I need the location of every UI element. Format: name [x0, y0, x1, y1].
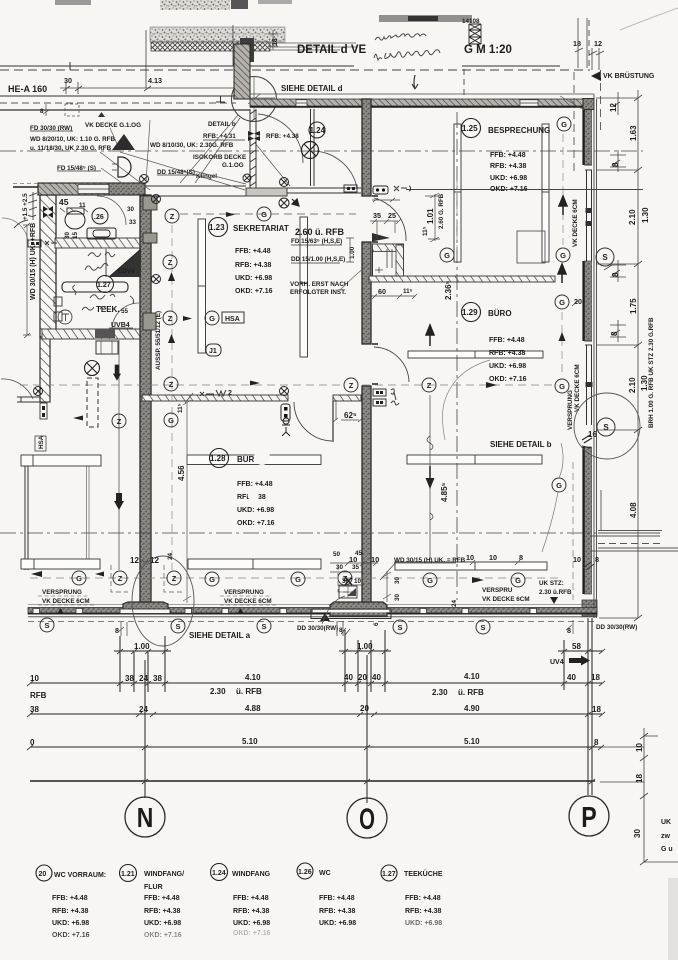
- circled T handwritten: [58, 310, 72, 324]
- circle Z bottom row3: [338, 571, 352, 585]
- svg-text:G: G: [209, 314, 215, 323]
- svg-text:RFB: +4.38: RFB: +4.38: [233, 908, 269, 915]
- beam row lower-left 1.28: [21, 559, 100, 569]
- svg-text:2.10: 2.10: [628, 209, 637, 225]
- balloon circle SIEHE DETAIL d: [232, 77, 277, 122]
- S circles right side: [596, 248, 615, 436]
- room 1.24 circle: [309, 122, 325, 138]
- svg-text:8: 8: [611, 162, 620, 167]
- parapet dashed verticals right: [573, 72, 575, 172]
- handwritten: lt. Stahlplan: [374, 50, 440, 60]
- wall: entrance stub above top wall: [234, 44, 250, 99]
- svg-text:30: 30: [394, 593, 401, 601]
- svg-text:zw: zw: [661, 833, 671, 840]
- svg-text:Z: Z: [427, 381, 432, 390]
- circle Z bottom row2: [167, 571, 181, 585]
- svg-text:1.26: 1.26: [298, 869, 312, 876]
- VK BRUESTUNG marker triangle: [591, 71, 601, 81]
- svg-text:SIEHE DETAIL d: SIEHE DETAIL d: [281, 84, 343, 93]
- bracket lines right of sekretariat: [517, 231, 545, 263]
- dim 18 12 top right: [573, 18, 604, 70]
- beam row 1.29 south room: [407, 455, 542, 464]
- svg-text:4.56: 4.56: [177, 465, 186, 481]
- svg-text:Z: Z: [118, 574, 123, 583]
- svg-text:Z: Z: [349, 381, 354, 390]
- circle G teekueche pass: [440, 248, 454, 262]
- svg-text:OKD: +7.16: OKD: +7.16: [52, 932, 90, 939]
- dim line with 30 and 4.13: [60, 82, 240, 94]
- grid verticals: [145, 618, 592, 803]
- svg-text:35: 35: [373, 211, 381, 220]
- black triangle symbol: [112, 134, 135, 150]
- footing of spine wall: [123, 602, 168, 611]
- svg-text:1.27: 1.27: [382, 871, 396, 878]
- svg-text:18: 18: [592, 705, 601, 714]
- svg-text:10: 10: [30, 674, 39, 683]
- svg-text:RFB: +4.38: RFB: +4.38: [490, 163, 526, 170]
- svg-text:10: 10: [489, 553, 497, 562]
- svg-text:4.90: 4.90: [464, 704, 480, 713]
- teek counter: [62, 282, 128, 292]
- leader to siehe detail b: [443, 360, 491, 440]
- circle G sekretariat hsa: [205, 311, 219, 325]
- wall: top exterior (north): [250, 99, 594, 107]
- svg-text:1.23: 1.23: [209, 223, 225, 232]
- section detail: thin slab lines to right: [270, 43, 356, 50]
- svg-text:S: S: [44, 621, 49, 630]
- notes above wc block: [30, 121, 299, 180]
- arrow left bottom2: [95, 572, 104, 577]
- wall: bottom exterior (south): [28, 608, 597, 615]
- svg-text:30: 30: [394, 576, 401, 584]
- neighbour structure lines SE: [590, 490, 678, 551]
- svg-text:OKD: +7.16: OKD: +7.16: [237, 520, 275, 527]
- svg-text:TEEK.: TEEK.: [96, 305, 120, 314]
- svg-text:SEKRETARIAT: SEKRETARIAT: [233, 224, 289, 233]
- wall: partition flur/1.28: [142, 395, 288, 401]
- wall: left exterior big hatched pier: [40, 195, 56, 337]
- svg-text:5.10: 5.10: [464, 737, 480, 746]
- svg-text:ISOKORB DECKE: ISOKORB DECKE: [193, 154, 246, 161]
- svg-text:10: 10: [466, 553, 474, 562]
- svg-text:4.08: 4.08: [629, 502, 638, 518]
- G circle on detail-b leader: [552, 478, 566, 492]
- S circles bottom: [40, 618, 490, 634]
- room 1.29 BUERO: [462, 303, 481, 322]
- svg-text:4.85⁵: 4.85⁵: [440, 482, 449, 502]
- svg-text:FFB: +4.48: FFB: +4.48: [237, 481, 273, 488]
- svg-text:u. 11/18/30, UK 2.30 G. RFB: u. 11/18/30, UK 2.30 G. RFB: [30, 145, 112, 152]
- arrow right buero mid: [486, 382, 497, 388]
- svg-text:+1.5 +2.5: +1.5 +2.5: [22, 193, 29, 220]
- leader lines: [100, 96, 584, 190]
- svg-text:1.24: 1.24: [212, 870, 226, 877]
- leader curve from inst note: [340, 262, 372, 290]
- door arc into 1.24 from east: [313, 151, 357, 188]
- svg-text:ü. RFB: ü. RFB: [236, 687, 262, 696]
- z-line row mid: [20, 384, 552, 386]
- extra marks at spine2 bottom cluster: [345, 577, 352, 585]
- left glass facade of 1.28: [25, 455, 28, 570]
- svg-text:1.25: 1.25: [462, 124, 478, 133]
- long line under header: [0, 65, 560, 67]
- svg-text:BRH 1.00 G. RFB UK STZ 2.30 G.: BRH 1.00 G. RFB UK STZ 2.30 G.RFB: [648, 317, 655, 428]
- svg-text:Z: Z: [170, 212, 175, 221]
- svg-text:UKD: +6.98: UKD: +6.98: [235, 275, 272, 282]
- svg-text:G: G: [261, 210, 267, 219]
- handdrawn arrow top: [412, 75, 418, 89]
- main chain line: [637, 90, 639, 618]
- svg-text:HSA: HSA: [225, 316, 240, 323]
- row B line: [30, 713, 602, 715]
- teekueche pass-through hatched box: [372, 233, 404, 276]
- dark corner triangle TEEK: [109, 249, 141, 277]
- svg-text:18: 18: [635, 774, 644, 783]
- beam row upper-left 1.28: [21, 455, 101, 466]
- HSA tag rotated left: [35, 436, 46, 451]
- circle G besprechung bottom: [556, 248, 570, 262]
- svg-text:OKD: +7.16: OKD: +7.16: [235, 288, 273, 295]
- svg-text:VERSPRU: VERSPRU: [482, 587, 513, 594]
- mullion squares on south wall: [33, 608, 537, 613]
- window gaps in north wall: [296, 100, 538, 106]
- svg-text:1.75: 1.75: [629, 298, 638, 314]
- wall: central spine (x140): [140, 195, 151, 607]
- arrow up east3: [559, 332, 566, 341]
- svg-text:UKD: +6.98: UKD: +6.98: [237, 507, 274, 514]
- svg-text:.26: .26: [94, 214, 104, 221]
- svg-text:WD 30/15 (H) UK. +RFB: WD 30/15 (H) UK. +RFB: [30, 223, 37, 300]
- section detail: dark angle bracket: [240, 38, 254, 62]
- footing of spine 2: [330, 602, 387, 616]
- grid bubble P: [569, 796, 609, 836]
- dims cluster at spine2 bottom: [333, 550, 379, 585]
- svg-text:16: 16: [588, 430, 597, 439]
- svg-text:BÜR: BÜR: [237, 455, 255, 464]
- handwritten 9R note: [391, 389, 399, 405]
- svg-text:WC: WC: [319, 870, 331, 877]
- svg-text:UKD: +6.98: UKD: +6.98: [144, 920, 181, 927]
- svg-text:G: G: [559, 298, 565, 307]
- svg-text:20: 20: [360, 704, 369, 713]
- svg-text:G M 1:20: G M 1:20: [464, 44, 512, 56]
- svg-text:VK DECKE 6CM: VK DECKE 6CM: [42, 598, 90, 605]
- svg-text:4.88: 4.88: [245, 704, 261, 713]
- svg-text:BÜRO: BÜRO: [488, 309, 512, 318]
- circle G bottom row: [72, 571, 86, 585]
- wc dims: [59, 197, 137, 239]
- row C texts: [30, 737, 599, 747]
- HSA tag box: [222, 312, 244, 323]
- svg-text:8: 8: [610, 331, 619, 336]
- svg-text:G: G: [295, 575, 301, 584]
- svg-text:FD 15/63⁵ (H,S,E): FD 15/63⁵ (H,S,E): [291, 238, 342, 245]
- svg-text:10: 10: [635, 743, 644, 752]
- door frame element under left wall: [40, 403, 47, 419]
- lattice tower symbol: [469, 24, 481, 44]
- door arc far left entry: [2, 218, 28, 243]
- svg-text:Z: Z: [117, 417, 122, 426]
- svg-text:RFB: RFB: [30, 691, 47, 700]
- svg-text:SIEHE DETAIL b: SIEHE DETAIL b: [490, 440, 552, 449]
- dim 62.5 ticks door 1.28: [333, 400, 363, 422]
- partial circle far left: [14, 220, 28, 228]
- roof overhang line above north wall: [250, 93, 594, 95]
- svg-text:RFB: +4.38: RFB: +4.38: [489, 350, 525, 357]
- svg-text:UKD: +6.98: UKD: +6.98: [52, 920, 89, 927]
- arrow down flur1: [113, 365, 121, 381]
- z-line row bottom: [30, 577, 560, 579]
- left wall corner lines at bottom: [17, 397, 50, 402]
- svg-text:RFB: +4.38: RFB: +4.38: [52, 908, 88, 915]
- squiggle breaks on leader: [427, 436, 433, 520]
- svg-text:VK DECKE 6CM: VK DECKE 6CM: [572, 199, 579, 247]
- svg-text:45: 45: [59, 197, 69, 207]
- circle Z mid left1: [112, 414, 126, 428]
- room 1.26 small circle WC: [92, 208, 108, 224]
- svg-text:HSA: HSA: [38, 435, 45, 449]
- inner 8 ticks: [610, 150, 626, 172]
- svg-text:8: 8: [594, 738, 599, 747]
- svg-text:UK: UK: [661, 819, 671, 826]
- svg-text:12: 12: [594, 39, 602, 48]
- svg-text:EDV4: EDV4: [118, 268, 135, 275]
- circle Z col extra 1: [163, 255, 177, 269]
- UK STZ note: [539, 580, 572, 596]
- door hardware marks right of spine2 top: [373, 186, 388, 194]
- svg-text:OKD: +7.16: OKD: +7.16: [489, 376, 527, 383]
- section detail: vertical edge line: [146, 25, 233, 88]
- svg-text:2.30: 2.30: [210, 687, 226, 696]
- top scan fragments at page edge: [55, 0, 292, 10]
- shaft boxes on spine: [143, 196, 157, 210]
- door TEEK arc: [112, 303, 139, 329]
- handwritten scribbles teekueche: [73, 253, 134, 311]
- east outer face double line: [594, 94, 597, 618]
- entrance side wall line with bowtie window: [250, 109, 256, 188]
- circle G besprechung top: [557, 117, 571, 131]
- svg-text:S: S: [175, 622, 180, 631]
- svg-text:FFB: +4.48: FFB: +4.48: [490, 152, 526, 159]
- rotated dim texts right chain: [609, 103, 650, 518]
- section lower lines: [0, 95, 236, 97]
- svg-text:VK DECKE G.1.OG: VK DECKE G.1.OG: [85, 122, 141, 129]
- svg-text:6: 6: [373, 622, 380, 626]
- svg-text:TEEKÜCHE: TEEKÜCHE: [404, 869, 443, 878]
- corridor partition line 1.24: [311, 109, 315, 186]
- dim 18 rotated at section: [268, 30, 279, 50]
- svg-text:11: 11: [79, 202, 86, 209]
- wall: WC block north wall: [38, 183, 145, 195]
- svg-text:VK DECKE 6CM: VK DECKE 6CM: [224, 598, 272, 605]
- bowtie on left wall: [43, 206, 53, 218]
- svg-text:S: S: [480, 623, 485, 632]
- arrow up east2: [558, 264, 566, 283]
- arrow down flur2: [114, 493, 124, 510]
- svg-text:VERSPRUNG: VERSPRUNG: [42, 589, 82, 596]
- arrow up besprechung east: [559, 196, 567, 215]
- door 1.29 arc: [374, 347, 409, 382]
- door arc entrance 1.24: [258, 114, 303, 163]
- svg-text:Z: Z: [168, 258, 173, 267]
- svg-text:S: S: [603, 423, 609, 432]
- svg-text:WC VORRAUM:: WC VORRAUM:: [54, 872, 106, 879]
- south wall black triangles: [57, 608, 330, 621]
- svg-text:30: 30: [64, 76, 72, 85]
- dashed z-row1 line: [180, 213, 356, 215]
- dashed parapet box top right: [464, 20, 589, 99]
- arrow SE at windfang: [292, 199, 299, 206]
- window bands in east wall: [585, 165, 592, 425]
- svg-text:J1: J1: [209, 348, 217, 355]
- svg-text:1.63: 1.63: [629, 125, 638, 141]
- lamp symbol big circle-x windfang: [302, 142, 319, 159]
- section detail: crosshatch screed band: [151, 42, 270, 51]
- svg-text:FFB: +4.48: FFB: +4.48: [319, 895, 355, 902]
- dark smudge band photographed header: [379, 15, 472, 22]
- svg-text:38: 38: [153, 674, 162, 683]
- svg-text:Z: Z: [172, 574, 177, 583]
- detail-a reference ellipse at footing: [132, 556, 194, 646]
- dashed line inside SE room near east wall: [572, 462, 574, 600]
- door WC arc: [97, 196, 126, 225]
- wc fixtures: toilet: [65, 211, 85, 229]
- sill piece right of WC block: [246, 188, 287, 196]
- svg-text:G.1.OG: G.1.OG: [222, 162, 244, 169]
- svg-text:FLUR: FLUR: [144, 884, 163, 891]
- svg-text:4.13: 4.13: [148, 76, 162, 85]
- circle Z mid left2: [164, 377, 178, 391]
- row D line: [30, 780, 595, 782]
- circle G bottom right1: [423, 573, 437, 587]
- svg-text:G: G: [209, 575, 215, 584]
- svg-text:2.60 G. RFB: 2.60 G. RFB: [438, 193, 445, 229]
- svg-text:4.10: 4.10: [464, 672, 480, 681]
- svg-text:WINDFANG/: WINDFANG/: [144, 871, 184, 878]
- wall: partition sekretariat/buero: [369, 276, 555, 282]
- svg-text:11⁵: 11⁵: [177, 403, 184, 413]
- svg-text:VK BRÜSTUNG: VK BRÜSTUNG: [603, 71, 655, 80]
- svg-text:40: 40: [372, 673, 381, 682]
- svg-text:8: 8: [339, 627, 343, 634]
- svg-text:DETAIL d VE: DETAIL d VE: [297, 44, 367, 56]
- svg-text:RFB: +4.38: RFB: +4.38: [144, 908, 180, 915]
- svg-text:10: 10: [573, 555, 581, 564]
- svg-text:12: 12: [609, 103, 618, 112]
- svg-text:S: S: [261, 622, 266, 631]
- svg-text:G: G: [444, 251, 450, 260]
- svg-text:FFB: +4.48: FFB: +4.48: [52, 895, 88, 902]
- svg-text:40: 40: [344, 673, 353, 682]
- svg-text:8: 8: [115, 626, 119, 635]
- svg-text:24: 24: [167, 552, 174, 560]
- legend 1.27: [381, 865, 397, 881]
- circle G buero top: [555, 295, 569, 309]
- svg-text:G: G: [559, 382, 565, 391]
- 12 tick top: [612, 92, 620, 115]
- svg-text:8: 8: [611, 272, 620, 277]
- arrows (flow direction): [31, 196, 567, 583]
- room 1.27 circle TEEKUECHE: [97, 276, 114, 293]
- arrows on sekretariat z-column: [168, 272, 175, 281]
- svg-text:20: 20: [574, 297, 582, 306]
- wall: WC/TEEK divider: [55, 238, 140, 248]
- svg-text:FFB: +4.48: FFB: +4.48: [235, 248, 271, 255]
- svg-text:FFB: +4.48: FFB: +4.48: [489, 337, 525, 344]
- lamp circle-x flur with stand: [85, 361, 100, 376]
- svg-text:G: G: [168, 416, 174, 425]
- svg-text:24: 24: [451, 599, 458, 607]
- row C line: [30, 746, 601, 748]
- legend 1.20: [36, 865, 52, 881]
- svg-text:11⁵: 11⁵: [403, 288, 413, 295]
- svg-text:1.01: 1.01: [426, 208, 435, 224]
- svg-text:62⁵: 62⁵: [344, 411, 357, 420]
- 1.00 dim lines: [114, 650, 603, 652]
- section detail: insulation stipple band: [150, 27, 285, 42]
- wall: TEEK south wall: [42, 329, 142, 339]
- svg-text:ERFOLGTER INST.: ERFOLGTER INST.: [290, 289, 346, 296]
- svg-text:VK DECKE 6CM: VK DECKE 6CM: [482, 596, 530, 603]
- svg-text:2.60 ü. RFB: 2.60 ü. RFB: [295, 227, 345, 237]
- svg-text:FFB: +4.48: FFB: +4.48: [144, 895, 180, 902]
- W2 handwritten note: [216, 390, 226, 396]
- svg-text:BESPRECHUNG: BESPRECHUNG: [488, 126, 550, 135]
- svg-text:FFB: +4.48: FFB: +4.48: [405, 895, 441, 902]
- door 1.28 arc + leaf: [294, 402, 332, 441]
- grid bubble N: [125, 797, 165, 837]
- extra leader diagonals top-left: [110, 118, 290, 190]
- svg-text:1.29: 1.29: [462, 308, 478, 317]
- circle Z col extra 2: [163, 311, 177, 325]
- svg-text:20: 20: [39, 871, 47, 878]
- svg-text:RFB: +4.38: RFB: +4.38: [235, 262, 271, 269]
- D-shaped fixture: [118, 157, 131, 177]
- svg-text:38: 38: [125, 674, 134, 683]
- svg-text:UKD: +6.98: UKD: +6.98: [233, 920, 270, 927]
- svg-text:OKD: +7.16: OKD: +7.16: [233, 930, 271, 937]
- legend 1.21: [120, 865, 137, 882]
- svg-text:DD 30/30(RW): DD 30/30(RW): [297, 625, 338, 632]
- svg-text:UK STZ:: UK STZ:: [539, 580, 564, 587]
- svg-text:30: 30: [64, 231, 71, 239]
- svg-text:UKD: +6.98: UKD: +6.98: [405, 920, 442, 927]
- svg-text:30: 30: [127, 206, 135, 213]
- svg-text:G: G: [515, 576, 521, 585]
- svg-text:50: 50: [333, 551, 341, 558]
- svg-text:38: 38: [30, 705, 39, 714]
- room 1.25 BESPRECHUNG: [462, 119, 481, 138]
- legend 1.26: [297, 863, 313, 879]
- room 1.23 SEKRETARIAT: [209, 218, 228, 237]
- svg-text:Z: Z: [168, 314, 173, 323]
- dashed duct rectangle flur: [87, 378, 98, 427]
- svg-text:G: G: [561, 120, 567, 129]
- partition bar in bueros: [408, 351, 543, 358]
- door 1.25 arc: [374, 198, 406, 241]
- scan shadow right edge: [668, 878, 678, 960]
- door arc left 1.28: [1, 379, 33, 399]
- svg-text:G: G: [76, 574, 82, 583]
- circle G bottom row3: [291, 572, 305, 586]
- svg-text:HE-A 160: HE-A 160: [8, 84, 47, 94]
- arrow down detail-b room: [426, 478, 435, 489]
- legend 1.24: [211, 864, 228, 881]
- wall: central spine 2 middle: [362, 242, 371, 344]
- svg-text:55: 55: [121, 308, 129, 315]
- arrow left bottom1: [31, 571, 42, 577]
- svg-text:1.24: 1.24: [310, 126, 326, 135]
